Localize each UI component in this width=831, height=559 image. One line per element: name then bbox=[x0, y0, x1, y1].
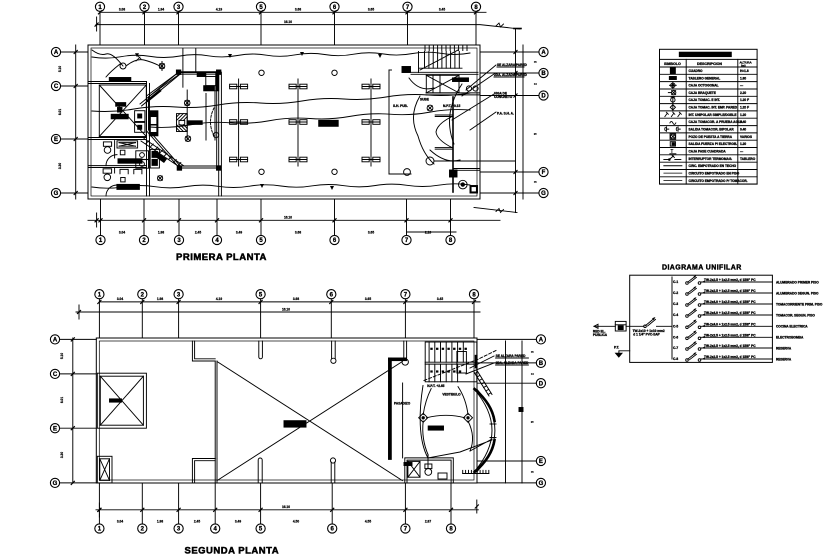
kitchen counter block bbox=[150, 149, 159, 168]
door frame walls bbox=[435, 114, 453, 116]
svg-text:0.40: 0.40 bbox=[740, 128, 746, 132]
svg-text:CIRC. EMPOTRADO EN TECHO: CIRC. EMPOTRADO EN TECHO bbox=[689, 164, 737, 168]
grid bubble 6 bbox=[330, 2, 339, 11]
svg-text:C-3: C-3 bbox=[673, 302, 678, 306]
sym prueba agua bbox=[670, 121, 676, 124]
grid bubble 8 bbox=[469, 290, 478, 299]
stair p2 mid landing bbox=[425, 361, 477, 363]
dim tick bbox=[514, 71, 517, 74]
black tick elev bbox=[110, 399, 122, 402]
incoming arrow bbox=[594, 324, 598, 328]
svg-text:SEGUNDA PLANTA: SEGUNDA PLANTA bbox=[185, 546, 280, 557]
legend row 15 line bbox=[660, 176, 758, 178]
mezz wall bottom bbox=[192, 459, 215, 484]
dim tick bbox=[259, 508, 262, 511]
leader line bubble C bbox=[61, 85, 88, 87]
svg-text:SE ALZARA PARED: SE ALZARA PARED bbox=[496, 354, 527, 358]
ceiling outlet kitchen bbox=[184, 90, 190, 140]
grid line 7 bottom bbox=[406, 199, 408, 235]
breaker C-4 bbox=[673, 308, 815, 317]
breaker C-2 bbox=[673, 286, 819, 295]
vanity bar bath1 bbox=[118, 159, 142, 163]
lamp sym 2 bbox=[463, 413, 472, 422]
big room right boundary bbox=[388, 70, 390, 174]
dim tick bbox=[404, 508, 407, 511]
svg-text:2DA. ALZADA PARED: 2DA. ALZADA PARED bbox=[494, 73, 528, 77]
svg-text:G: G bbox=[539, 481, 544, 487]
main breaker bbox=[644, 317, 672, 328]
fluorescent fixture bbox=[230, 120, 248, 125]
grid line 6 top bbox=[334, 11, 336, 45]
svg-text:SIMBOLO: SIMBOLO bbox=[664, 62, 681, 66]
dim tick bbox=[215, 219, 218, 222]
grid line 1 bottom bbox=[100, 199, 102, 235]
grid bubble 7 bbox=[401, 290, 410, 299]
grid line 6 bottom bbox=[334, 199, 336, 235]
meter box bbox=[615, 321, 626, 331]
shower window bath1 bbox=[117, 141, 138, 148]
grid line 4 bottom bbox=[216, 199, 218, 235]
dim tick bbox=[74, 50, 77, 53]
bottom dim line plan2 bbox=[96, 509, 478, 511]
grid bubble 2 bbox=[140, 2, 149, 11]
stair p2 treads flight B bbox=[429, 364, 458, 382]
svg-text:E: E bbox=[53, 426, 57, 432]
bottom-right break line bbox=[474, 208, 517, 213]
leader right bubble A p2 bbox=[477, 338, 536, 340]
bus vertical line bbox=[671, 277, 673, 359]
grid line 5 bottom bbox=[260, 199, 262, 235]
svg-text:TABLERO: TABLERO bbox=[740, 157, 756, 161]
end bar right dim bbox=[514, 28, 521, 30]
grid line 3 bottom bbox=[178, 199, 180, 235]
grid bubble 1 bbox=[95, 524, 104, 533]
mezz left wall bbox=[214, 361, 216, 459]
leader lines labels bbox=[452, 65, 496, 130]
grid bubble E bbox=[51, 134, 60, 143]
leader line bubble A bbox=[61, 51, 88, 53]
legend row 6 line bbox=[660, 110, 758, 112]
svg-text:CAJA TOMACOR. A PRUEBA AGUA: CAJA TOMACOR. A PRUEBA AGUA bbox=[689, 120, 744, 124]
dim tick bbox=[177, 219, 180, 222]
vertical line left of dim bbox=[96, 17, 98, 31]
grid bubble 5 bbox=[256, 290, 265, 299]
building outer wall plan2 bbox=[96, 338, 477, 483]
top dimension line 1 plan2 bbox=[99, 301, 480, 303]
pilaster top 1 bbox=[259, 341, 263, 359]
svg-text:RESERVA: RESERVA bbox=[776, 346, 792, 350]
black box corner bbox=[450, 170, 458, 177]
legend row 16 line bbox=[660, 183, 758, 185]
svg-text:TW-2x2.5 + 1x2.5 mm2, d 15/8": TW-2x2.5 + 1x2.5 mm2, d 15/8" PC bbox=[704, 333, 756, 337]
leader right bubble G p2 bbox=[477, 482, 536, 484]
curved wall door ticks bbox=[490, 423, 496, 425]
sym tomac int bbox=[671, 96, 675, 103]
cabinet top right bbox=[197, 72, 219, 91]
svg-text:B: B bbox=[541, 71, 546, 77]
svg-text:C-8: C-8 bbox=[673, 357, 678, 361]
dim tick bbox=[514, 50, 517, 53]
svg-text:CAJA OCTOGONAL: CAJA OCTOGONAL bbox=[689, 84, 719, 88]
switch symbol room1 bbox=[136, 56, 141, 61]
fluorescent fixture bbox=[230, 157, 248, 162]
legend row 9 line bbox=[660, 132, 758, 134]
svg-text:G: G bbox=[53, 481, 58, 487]
grid bubble 6 bbox=[330, 235, 339, 244]
dim tick bbox=[405, 219, 408, 222]
comedor hexagon inner bbox=[149, 74, 217, 166]
corner block bbox=[217, 70, 221, 74]
leader line bubble G bbox=[61, 192, 88, 194]
wall stub x195.8 bbox=[195, 49, 197, 73]
grid bubble 5 bbox=[256, 2, 265, 11]
bath p2 xbox bbox=[408, 461, 420, 477]
svg-text:C-2: C-2 bbox=[673, 291, 678, 295]
grid bubble D bbox=[539, 91, 548, 100]
breaker C-3 bbox=[673, 297, 823, 306]
sym panel bbox=[670, 68, 675, 74]
svg-text:16.10: 16.10 bbox=[284, 216, 292, 220]
right vertical dim line bbox=[515, 29, 517, 213]
svg-text:5: 5 bbox=[534, 133, 538, 135]
dim tick bbox=[142, 219, 145, 222]
dim tick bbox=[177, 11, 180, 14]
grid bubble G bbox=[51, 188, 60, 197]
grid bubble 6 bbox=[327, 290, 336, 299]
tick right bottom p2 bbox=[475, 505, 478, 508]
dim tick bbox=[99, 219, 102, 222]
sala label blob bbox=[428, 426, 443, 430]
tread number marks A bbox=[430, 348, 467, 350]
fluorescent fixture bbox=[289, 157, 307, 162]
grid bubble G bbox=[50, 478, 59, 487]
grid line 1 top bbox=[99, 11, 101, 45]
leader bubble C p2 bbox=[60, 373, 97, 375]
breaker C-8 bbox=[673, 352, 792, 361]
dim tick bbox=[474, 11, 477, 14]
dim tick bbox=[259, 219, 262, 222]
comedor right wall extension bbox=[218, 168, 220, 196]
svg-text:E: E bbox=[54, 137, 58, 143]
svg-text:3.04: 3.04 bbox=[117, 297, 123, 301]
grid bubble 4 bbox=[211, 524, 220, 533]
svg-text:ELECTROBOMBA: ELECTROBOMBA bbox=[776, 336, 804, 340]
fluorescent fixture bbox=[362, 84, 380, 89]
grid bubble 3 bbox=[174, 290, 183, 299]
dim tick bbox=[514, 94, 517, 97]
grid line 1 p2 bottom bbox=[98, 483, 100, 524]
balcony rail ticks top bbox=[425, 46, 467, 51]
grid line 2 bottom bbox=[143, 199, 145, 235]
grid line 3 p2 top bbox=[178, 299, 180, 338]
unifilar main box bbox=[630, 275, 773, 362]
svg-text:3.49: 3.49 bbox=[235, 520, 241, 524]
sym interruptor bbox=[665, 112, 682, 116]
breaker C-6 bbox=[673, 330, 804, 339]
svg-text:TW-2x2.5 + 1x2.5 mm2, d 15/8": TW-2x2.5 + 1x2.5 mm2, d 15/8" PC bbox=[704, 344, 756, 348]
svg-text:COCINA ELECTRICA: COCINA ELECTRICA bbox=[776, 325, 808, 329]
curved wall black bottom bbox=[475, 440, 495, 472]
leader right bubble E p2 bbox=[477, 460, 536, 462]
svg-text:CUADRO: CUADRO bbox=[689, 69, 704, 73]
outlet circles right wall bbox=[466, 86, 471, 91]
grid line 3 p2 bottom bbox=[178, 483, 180, 524]
grid bubble G bbox=[539, 188, 548, 197]
conduit line col bbox=[238, 79, 240, 166]
dim tick bbox=[406, 11, 409, 14]
svg-text:---: --- bbox=[740, 84, 743, 88]
svg-text:3.45: 3.45 bbox=[437, 297, 443, 301]
pilaster bottom 2 circle bbox=[330, 458, 335, 483]
grid bubble 1 bbox=[95, 2, 104, 11]
grid line 3 top bbox=[178, 11, 180, 45]
grid bubble B bbox=[539, 68, 548, 77]
svg-text:4.50: 4.50 bbox=[293, 520, 299, 524]
wavy wire middle bbox=[92, 93, 470, 111]
left vertical dim line plan1 bbox=[75, 45, 77, 199]
grid line 2 p2 top bbox=[141, 299, 143, 338]
svg-text:3: 3 bbox=[531, 351, 535, 353]
wall y82 bbox=[88, 81, 147, 83]
svg-text:TW-2x2.5 + 1x2.5 mm2, d 15/8": TW-2x2.5 + 1x2.5 mm2, d 15/8" PC bbox=[704, 355, 756, 359]
curved wall p2 thin bbox=[474, 389, 492, 472]
fluorescent fixture bbox=[230, 84, 248, 89]
svg-text:2: 2 bbox=[534, 83, 538, 85]
grid bubble B bbox=[536, 358, 545, 367]
svg-text:F: F bbox=[542, 170, 546, 176]
svg-text:SALIDA FUERZA P/ ELECTROB.: SALIDA FUERZA P/ ELECTROB. bbox=[689, 142, 738, 146]
svg-text:A: A bbox=[541, 50, 546, 56]
dim tick bbox=[71, 481, 74, 484]
legend title bar bbox=[679, 52, 731, 56]
sink boxes bath2 bbox=[120, 169, 142, 173]
svg-text:8.01: 8.01 bbox=[58, 109, 62, 115]
toilet bath1 bbox=[103, 142, 111, 146]
svg-text:3.04: 3.04 bbox=[117, 520, 123, 524]
small X box p2 bbox=[97, 456, 112, 483]
dim tick bbox=[449, 508, 452, 511]
stair left wall bbox=[418, 52, 420, 73]
svg-text:C: C bbox=[53, 372, 58, 378]
svg-text:4.19: 4.19 bbox=[216, 297, 222, 301]
svg-text:H=1.8: H=1.8 bbox=[740, 69, 749, 73]
legend title row line bbox=[660, 58, 758, 60]
svg-text:1.20 F: 1.20 F bbox=[740, 106, 749, 110]
svg-text:2: 2 bbox=[531, 373, 535, 375]
sym circuito techo bbox=[664, 165, 682, 167]
legend row 3 line bbox=[660, 88, 758, 90]
stair core box bbox=[457, 352, 467, 374]
stair p2 outline bbox=[425, 342, 477, 382]
leader bubble E p2 bbox=[60, 427, 97, 429]
ceiling lamp bbox=[259, 70, 264, 75]
grid line 8 bottom bbox=[450, 199, 452, 235]
grid line 8 p2 bottom bbox=[450, 483, 452, 524]
dim tick bbox=[71, 372, 74, 375]
grid line 4 p2 bottom bbox=[214, 483, 216, 524]
sym circuito tomacor bbox=[664, 180, 682, 182]
svg-text:CIRCUITO EMPOTRADO EN PISO: CIRCUITO EMPOTRADO EN PISO bbox=[689, 171, 740, 175]
sym tomac emp bbox=[670, 104, 675, 112]
grid line 2 top bbox=[144, 11, 146, 45]
legend col line 1 bbox=[685, 59, 687, 184]
leader right bubble B p2 bbox=[477, 362, 536, 364]
escalator band bbox=[141, 139, 184, 169]
pump circle B bbox=[459, 180, 468, 189]
grid bubble 2 bbox=[138, 290, 147, 299]
svg-text:2.45: 2.45 bbox=[194, 520, 200, 524]
pilaster bottom 1 bbox=[258, 458, 262, 483]
svg-text:T: T bbox=[670, 149, 673, 155]
grid bubble C bbox=[51, 81, 60, 90]
legend row 4 line bbox=[660, 95, 758, 97]
upper sink pair bbox=[135, 111, 145, 133]
svg-text:A: A bbox=[539, 338, 544, 344]
svg-text:3.49: 3.49 bbox=[236, 231, 242, 235]
grid bubble 2 bbox=[138, 524, 147, 533]
grid line 5 p2 bottom bbox=[260, 483, 262, 524]
dim tick bbox=[449, 219, 452, 222]
leader labels p2 bbox=[466, 356, 494, 374]
svg-text:3.65: 3.65 bbox=[368, 231, 374, 235]
pilaster top 2 circle bbox=[331, 341, 336, 363]
building outer wall plan1 bbox=[88, 45, 480, 199]
grid bubble 3 bbox=[174, 2, 183, 11]
dim tick bbox=[259, 11, 262, 14]
svg-text:S.H. PUB.: S.H. PUB. bbox=[393, 104, 408, 108]
counter black rects bbox=[187, 121, 202, 125]
circle small left bbox=[404, 169, 411, 176]
black tick square bbox=[519, 408, 523, 412]
dim tick bbox=[472, 300, 475, 303]
wires to curve bbox=[428, 439, 492, 458]
svg-text:3.04: 3.04 bbox=[119, 231, 125, 235]
grid line 5 top bbox=[260, 11, 262, 45]
stair right wall black bbox=[475, 355, 477, 368]
grid line 8 p2 top bbox=[473, 299, 475, 338]
left vertical dim line p2 bbox=[72, 338, 74, 483]
svg-text:RESERVA: RESERVA bbox=[776, 357, 792, 361]
corridor wall x402.6 bbox=[402, 383, 404, 458]
wire to bath bbox=[427, 455, 429, 468]
toilet bath2 bbox=[103, 169, 112, 173]
ceiling lamp bbox=[332, 169, 337, 174]
grid bubble 7 bbox=[402, 235, 411, 244]
svg-text:(m): (m) bbox=[741, 64, 746, 68]
svg-text:16.10: 16.10 bbox=[284, 20, 292, 24]
comedor hexagon outer bbox=[147, 72, 219, 168]
grid bubble E bbox=[536, 456, 545, 465]
grid bubble E bbox=[50, 424, 59, 433]
svg-text:C-4: C-4 bbox=[673, 313, 678, 317]
bath1 partition bbox=[114, 141, 116, 158]
wavy wire bottom bbox=[92, 184, 470, 188]
tick left end bottom dim bbox=[95, 219, 98, 222]
svg-text:d 1 1/4" PVC-SAP: d 1 1/4" PVC-SAP bbox=[633, 332, 660, 336]
dim tick bbox=[404, 300, 407, 303]
grid bubble 3 bbox=[174, 524, 183, 533]
grid bubble 2 bbox=[139, 235, 148, 244]
svg-text:2.87: 2.87 bbox=[425, 520, 431, 524]
meter to box line bbox=[626, 325, 644, 327]
svg-text:TW-2x4.0 + 1x2.5 mm2, d 15/8": TW-2x4.0 + 1x2.5 mm2, d 15/8" PC bbox=[704, 300, 756, 304]
svg-text:SALIDA TOMACOR. BIPOLAR: SALIDA TOMACOR. BIPOLAR bbox=[689, 128, 735, 132]
legend row 7 line bbox=[660, 117, 758, 119]
legend row 1 line bbox=[660, 73, 758, 75]
misc wires right bbox=[409, 78, 462, 164]
switch box bath1 bbox=[120, 150, 125, 155]
svg-text:1.98: 1.98 bbox=[157, 520, 163, 524]
svg-text:TW-2x2.5 + 1x2.5 mm2, d 15/8": TW-2x2.5 + 1x2.5 mm2, d 15/8" PC bbox=[704, 289, 756, 293]
svg-text:1.98: 1.98 bbox=[158, 231, 164, 235]
svg-text:3.30: 3.30 bbox=[58, 163, 62, 169]
leader bubble A p2 bbox=[60, 338, 97, 340]
dim tick bbox=[331, 508, 334, 511]
wires right room bbox=[423, 387, 473, 455]
grid bubble 8 bbox=[471, 2, 480, 11]
svg-text:D: D bbox=[539, 381, 544, 387]
svg-text:3.30: 3.30 bbox=[60, 452, 64, 458]
wires room1 bbox=[92, 50, 160, 77]
counter band black fill bbox=[146, 89, 162, 102]
svg-text:3.68: 3.68 bbox=[295, 8, 301, 12]
dim tick bbox=[141, 508, 144, 511]
dim tick bbox=[333, 219, 336, 222]
ground triangle bbox=[615, 353, 623, 358]
dim tick bbox=[177, 508, 180, 511]
leader line right bubble B bbox=[480, 72, 539, 74]
wall y137-139 bbox=[88, 137, 147, 139]
wall stub x182.9 bbox=[182, 49, 184, 88]
svg-text:5.10: 5.10 bbox=[58, 66, 62, 72]
dim tick bbox=[71, 427, 74, 430]
leader line bubble E bbox=[61, 138, 88, 140]
svg-text:DIAGRAMA UNIFILAR: DIAGRAMA UNIFILAR bbox=[662, 265, 742, 272]
fluorescent fixture bbox=[289, 84, 307, 89]
top dimension line 1 plan1 bbox=[100, 11, 486, 13]
svg-text:2.45: 2.45 bbox=[195, 231, 201, 235]
conduit line col bbox=[297, 79, 299, 166]
grid bubble D bbox=[536, 379, 545, 388]
stair bottom wall bbox=[411, 71, 478, 73]
svg-text:1.98: 1.98 bbox=[157, 297, 163, 301]
leader right bubble D p2 bbox=[477, 382, 536, 384]
svg-text:PRIMERA PLANTA: PRIMERA PLANTA bbox=[176, 252, 267, 263]
leader line right bubble A bbox=[480, 51, 539, 53]
legend row 12 line bbox=[660, 154, 758, 156]
svg-text:A: A bbox=[54, 50, 59, 56]
black box br2 bbox=[470, 186, 478, 194]
svg-text:2.13: 2.13 bbox=[425, 231, 431, 235]
legend row 8 line bbox=[660, 125, 758, 127]
breaker C-1 bbox=[673, 275, 819, 284]
tick left bottom p2 bbox=[98, 508, 101, 511]
bath p2 toilet bbox=[425, 469, 432, 476]
bath2 partition bbox=[114, 168, 116, 174]
grid bubble 4 bbox=[212, 235, 221, 244]
grid bubble G bbox=[536, 478, 545, 487]
grid bubble C bbox=[50, 369, 59, 378]
thick wall black bbox=[389, 358, 392, 459]
svg-text:TOMACOR. SEGUN. PISO: TOMACOR. SEGUN. PISO bbox=[776, 313, 815, 317]
svg-text:CAJA TOMAC. INT. EMP. PARED: CAJA TOMAC. INT. EMP. PARED bbox=[689, 106, 738, 110]
dim tick bbox=[177, 300, 180, 303]
curved wall black top bbox=[475, 389, 495, 421]
dim tick bbox=[74, 191, 77, 194]
svg-text:INTERRUPTOR TERMOMAG.: INTERRUPTOR TERMOMAG. bbox=[689, 157, 733, 161]
ceiling lamp bbox=[259, 169, 264, 174]
counter diagonal band bbox=[140, 72, 179, 104]
